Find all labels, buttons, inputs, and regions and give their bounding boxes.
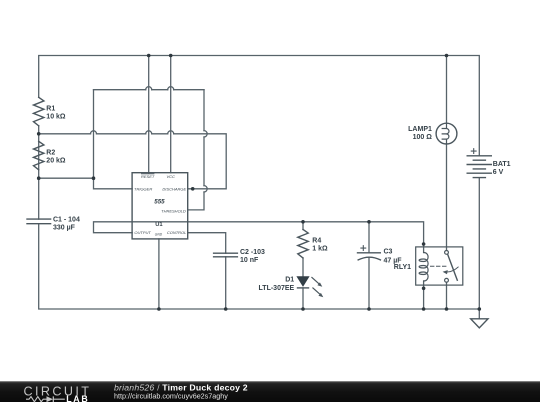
- svg-text:OUTPUT: OUTPUT: [134, 230, 151, 235]
- C3 plus sign: [361, 246, 366, 251]
- relay switch lever: [448, 254, 458, 280]
- svg-text:C3: C3: [384, 248, 393, 255]
- relay actuation arrow: [446, 267, 458, 272]
- relay coil: [419, 253, 428, 282]
- LED D1 triangle and bar: [297, 277, 308, 286]
- wire LED to rail: [302, 288, 304, 309]
- node dot trigger branch: [92, 176, 96, 180]
- svg-text:C1 - 104: C1 - 104: [53, 217, 80, 224]
- svg-text:CONTROL: CONTROL: [167, 230, 187, 235]
- LED arrow heads: [317, 282, 322, 286]
- wire left rail to bottom: [39, 224, 480, 309]
- node dot relay coil top: [422, 242, 426, 246]
- hop threshold vertical over discharge wire: [204, 186, 207, 192]
- svg-text:D1: D1: [285, 276, 294, 283]
- hop of R1R2 wire over trigger feed: [91, 131, 97, 134]
- hop threshold vertical over R1R2 wire: [204, 131, 207, 137]
- svg-text:R1: R1: [46, 105, 55, 112]
- relay actuation dashed line: [431, 265, 449, 267]
- svg-text:6 V: 6 V: [493, 169, 504, 176]
- wire ground stub: [478, 309, 480, 319]
- node dot R1R2 junction: [37, 132, 41, 136]
- wire R4 branch: [302, 222, 304, 230]
- wire R2 bottom to TRIGGER: [39, 178, 132, 189]
- wire RESET pin to top rail: [148, 56, 150, 173]
- resistor R4: [298, 230, 308, 258]
- wire R4 to LED: [302, 258, 304, 277]
- wire VCC pin to top rail: [170, 56, 172, 173]
- svg-text:100 Ω: 100 Ω: [413, 134, 433, 141]
- node dot c3 rail: [367, 307, 371, 311]
- svg-text:R2: R2: [46, 149, 55, 156]
- node dot switch rail: [445, 307, 449, 311]
- svg-text:1 kΩ: 1 kΩ: [312, 245, 328, 252]
- svg-text:RLY1: RLY1: [394, 264, 411, 271]
- svg-text:10 nF: 10 nF: [240, 257, 259, 264]
- relay switch contact bottom: [445, 278, 449, 282]
- lamp LAMP1 circle: [436, 123, 457, 144]
- node dot lamp top rail: [445, 54, 449, 58]
- svg-text:LAMP1: LAMP1: [408, 126, 432, 133]
- battery plus sign: [471, 149, 476, 154]
- svg-text:VCC: VCC: [167, 174, 176, 179]
- node dot vcc top rail: [169, 54, 173, 58]
- hop of R1R2 wire over vcc wire: [168, 131, 174, 134]
- svg-text:THRESHOLD: THRESHOLD: [161, 208, 186, 213]
- node dot R4 tap: [301, 220, 305, 224]
- wire relay coil through box to rail: [423, 247, 425, 253]
- svg-text:http://circuitlab.com/cuyv6e2s: http://circuitlab.com/cuyv6e2s7aghy: [114, 391, 228, 400]
- wire left rail lower: [38, 126, 40, 219]
- wire GND pin to rail: [158, 239, 160, 309]
- svg-text:20 kΩ: 20 kΩ: [46, 158, 66, 165]
- resistor R2: [34, 141, 44, 169]
- node dot R2 bottom: [37, 176, 41, 180]
- wire top rail VCC: [39, 56, 480, 156]
- hop of loop wire over reset wire: [146, 87, 152, 90]
- wire C3 bottom to rail: [368, 257, 370, 309]
- svg-text:10 kΩ: 10 kΩ: [46, 114, 66, 121]
- wire OUTPUT loop to long rail: [94, 222, 424, 247]
- svg-text:U1: U1: [155, 222, 163, 228]
- relay switch contact top: [445, 251, 449, 255]
- resistor R1: [34, 97, 44, 126]
- relay arrow head: [443, 270, 448, 274]
- hop of R1R2 wire over reset wire: [146, 131, 152, 134]
- node dot battery ground rail: [478, 307, 482, 311]
- node dot reset top rail: [147, 54, 151, 58]
- logo squiggle resistor diode: [26, 396, 65, 402]
- wire lamp to relay switch: [446, 144, 448, 251]
- svg-text:RESET: RESET: [141, 174, 155, 179]
- node dot coil rail: [422, 307, 426, 311]
- svg-text:555: 555: [154, 198, 165, 205]
- LED D1 arrows: [312, 278, 321, 295]
- node dot discharge: [191, 187, 195, 191]
- svg-text:LAB: LAB: [66, 394, 89, 404]
- battery BAT1: [467, 156, 491, 178]
- svg-text:BAT1: BAT1: [493, 161, 511, 168]
- hop of loop wire over vcc wire: [168, 87, 174, 90]
- ground: [471, 319, 488, 328]
- svg-text:R4: R4: [312, 237, 321, 244]
- svg-text:LTL-307EE: LTL-307EE: [259, 285, 295, 292]
- node dot C3 tap: [367, 220, 371, 224]
- wire loop top horizontal: [94, 89, 205, 91]
- op-amp U1 555 timer box: [132, 173, 188, 239]
- svg-text:TRIGGER: TRIGGER: [134, 187, 152, 192]
- wire CONTROL to C2: [188, 233, 226, 254]
- svg-text:DISCHARGE: DISCHARGE: [162, 187, 186, 192]
- svg-text:GND: GND: [155, 233, 163, 237]
- wire trigger-threshold loop: [93, 90, 95, 179]
- node dot led rail: [301, 307, 305, 311]
- lamp filament: [442, 123, 449, 144]
- wire R1R2 junction to discharge link: [39, 134, 227, 189]
- wire C2 bottom to rail: [225, 257, 227, 309]
- wire battery to bottom rail: [478, 178, 480, 309]
- node dot c2 rail: [224, 307, 228, 311]
- svg-text:C2 -103: C2 -103: [240, 249, 265, 256]
- capacitor C3 plates: [358, 253, 381, 260]
- node dot gnd rail: [157, 307, 161, 311]
- node dot relay coil bottom: [422, 287, 426, 291]
- relay RLY1 box: [416, 247, 463, 285]
- wire C3 branch: [368, 222, 370, 253]
- wire relay switch to rail: [446, 282, 448, 309]
- svg-text:330 µF: 330 µF: [53, 225, 76, 232]
- wire lamp branch from top rail: [446, 56, 448, 124]
- wire threshold vertical with hops: [188, 90, 204, 210]
- capacitor C1 plates: [27, 219, 51, 224]
- capacitor C2 plates: [214, 253, 238, 257]
